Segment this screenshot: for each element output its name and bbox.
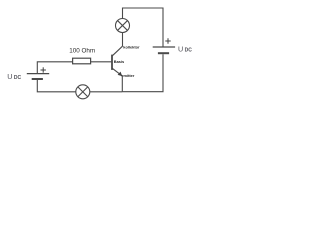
wire: lamp P2 to emitter junction <box>90 91 123 93</box>
svg-text:emitter: emitter <box>121 73 134 78</box>
battery U1 plus sign <box>41 67 46 72</box>
svg-text:Basis: Basis <box>114 59 124 64</box>
resistor R1 body <box>73 58 91 64</box>
wire: top rail from lamp P1 to battery U2 <box>123 8 164 47</box>
wire: battery U2 to bottom rail <box>122 54 163 91</box>
wire: emitter to bottom rail <box>121 76 123 92</box>
transistor Q1 emitter lead with arrow <box>112 68 122 75</box>
battery U1 short plate <box>32 78 43 80</box>
battery U2 short plate <box>158 52 169 54</box>
lamp P2 (emitter lamp) <box>76 85 90 99</box>
wire: lamp P1 to collector <box>122 33 124 47</box>
battery U2 long plate <box>153 46 175 48</box>
svg-text:DC: DC <box>14 75 22 81</box>
transistor Q1 collector lead <box>112 46 122 56</box>
svg-text:U: U <box>7 72 12 81</box>
svg-text:DC: DC <box>185 48 193 54</box>
lamp P1 (collector lamp) <box>116 19 130 33</box>
battery U2 plus sign <box>165 38 170 43</box>
svg-text:100 Ohm: 100 Ohm <box>69 48 95 55</box>
svg-text:U: U <box>178 45 183 54</box>
wire: base wire from resistor R1 to transistor Q1 <box>91 61 112 63</box>
transistor Q1 base bar <box>111 55 113 70</box>
battery U1 long plate <box>27 73 49 75</box>
svg-text:kollektor: kollektor <box>123 45 140 50</box>
wire: battery U1 to lamp P2 <box>37 80 76 92</box>
wire: battery U1 to resistor R1 <box>37 62 72 73</box>
